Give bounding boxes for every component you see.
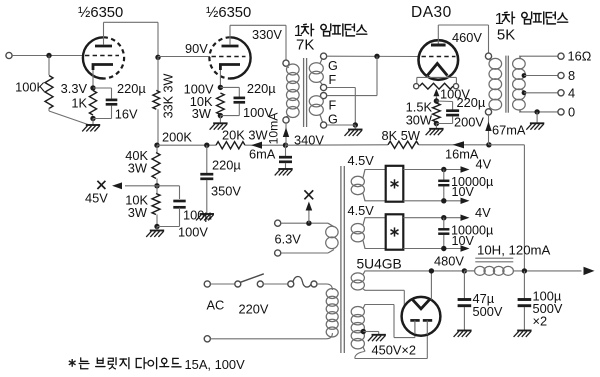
T1 secondary winding 1 [309,63,323,74]
T3 6.3V terminal top [275,220,281,226]
arrow X (up) [306,202,313,211]
node 340V [283,143,288,148]
resistor R6 40K 3W [152,153,160,179]
current arrow 67mA [485,122,491,132]
ground R8 [429,128,443,130]
tube V3 grid [422,56,456,58]
svg-text:220µ: 220µ [247,81,276,96]
svg-text:16Ω: 16Ω [568,49,592,64]
T3 6.3V winding [326,226,338,238]
tube V3 plate [431,44,446,47]
note korean: bridge diode 15A 100V [79,358,89,369]
svg-text:½6350: ½6350 [206,5,251,21]
svg-text:33K 3W: 33K 3W [162,73,176,118]
wire V3 plate to T2 [438,24,488,26]
tube V4 filament [412,299,430,309]
T1 primary winding [287,64,300,75]
wire to ground V1 cathode [92,119,94,125]
wire 340V to 8K [286,144,389,146]
node BR2 + [441,215,446,220]
capacitor C4 100u 100V [173,200,185,203]
T3 4.5V winding 2 [351,224,364,234]
resistor R7 10K 3W [152,194,160,215]
wire C10 bottom [523,307,525,330]
wire HV top to left plate [365,304,395,306]
wire 90V to V2 grid [157,56,159,59]
fuse left terminal [288,281,294,287]
node HV center tap [361,329,366,334]
wire R7 to ground [156,227,158,231]
note asterisk [71,359,73,367]
ground 0 tap [530,122,544,124]
svg-text:4.5V: 4.5V [348,203,375,218]
T2 primary winding [489,58,502,69]
T3 HV winding 450Vx2 [351,307,364,317]
bridge rectifier BR2 [386,214,404,249]
wire 16ohm tap [519,56,521,59]
tube V1 cathode [93,65,113,71]
capacitor C3 220u 350V [200,173,213,176]
wire C4 top [157,185,180,187]
wire 6.3V top [281,222,328,224]
node V2 cathode [218,85,223,90]
capacitor C9 47u 500V [458,298,472,301]
svg-text:3W: 3W [128,161,148,176]
T1 primary top lead [286,66,289,67]
svg-text:67mA: 67mA [492,123,526,138]
wire 0 tap [519,110,521,112]
svg-text:200K: 200K [162,129,192,144]
resistor R9 8K 5W [388,141,419,148]
resistor R1 100K [45,76,53,109]
wire fuse to primary [317,283,327,285]
T1 sec2 leads [320,96,322,98]
wire BR1 + output [403,169,461,171]
T1 sec2 bottom terminal [321,122,327,128]
label X mark right [304,190,313,199]
resistor R5 20K 3W [216,142,245,149]
svg-text:5K: 5K [497,26,515,43]
ground HV center tap [372,334,386,336]
wire G1 to DA30 grid [327,55,419,57]
svg-text:480V: 480V [434,254,464,269]
svg-text:16mA: 16mA [445,147,479,162]
node 4 tap [522,90,527,95]
tube V4 5U4GB envelope [402,297,441,336]
tube V4 plate right [423,319,432,322]
wire 8 tap [524,75,558,77]
wire to choke-out riser [489,144,525,146]
svg-text:100µ: 100µ [183,208,212,223]
wire primary bottom [326,333,332,339]
choke core lines [475,257,513,259]
tube V1 grid [85,55,119,57]
tube V4 plate left [410,319,419,322]
hum pot left terminal [414,84,419,89]
node V2 cathode bottom [218,113,223,118]
svg-text:90V: 90V [185,41,208,56]
svg-text:10H, 120mA: 10H, 120mA [477,242,551,257]
wire C5 top [436,100,452,103]
tube V3 DA30 envelope [419,40,459,80]
terminal 16 ohm [558,53,564,59]
wire BR2 + output [403,217,461,219]
node BR2 - [441,246,446,251]
wire 100K top [48,56,50,76]
svg-text:1K: 1K [71,96,87,111]
wire BR1 - output [403,200,461,202]
current arrow 10mA [283,128,289,138]
svg-text:100K: 100K [15,80,45,95]
svg-text:100V: 100V [178,225,208,240]
T1 primary top terminal [283,60,289,66]
wire 4.5V-1 to bridge [365,169,386,171]
wire 350V cap top [206,145,208,173]
node 8 tap [522,73,527,78]
wire cathode cap top [93,87,112,89]
ground C10 [517,330,531,332]
svg-text:220V: 220V [239,301,269,316]
capacitor C5 220u 200V [446,109,459,112]
label BR1 asterisk [394,179,396,188]
svg-text:7K: 7K [296,37,314,54]
T1 secondary winding 2 [309,96,323,107]
T3 core [340,166,342,353]
wire 45V tap left [125,185,157,187]
T1 sec1 bottom terminal [321,84,327,90]
tube V2 cathode [220,65,240,71]
wire C6 bottom [285,163,287,169]
node grid wire [374,54,379,59]
wire V1 plate to 33K node [104,21,159,23]
wire 33K to 200K node [157,109,159,145]
svg-text:3W: 3W [128,205,148,220]
ground C6 [278,168,292,170]
wire F2 to grid node [327,95,377,97]
node 45V tap [154,183,159,188]
ground V1 cathode [86,124,100,126]
wire plate node down [157,58,159,91]
ground T1 secondary [348,129,362,131]
wire input to V1 grid [12,55,83,57]
capacitor C6 decoupling [279,156,292,159]
switch blade [240,274,263,283]
tube V2 grid [212,56,246,58]
resistor R8 1.5K 30W [433,103,441,122]
wire 200K node to 20K [157,144,216,146]
wire V2 plate to T1 primary [230,24,286,26]
svg-text:220µ: 220µ [212,158,241,173]
arrow BR1 + output [461,166,470,172]
svg-text:F: F [329,73,337,87]
wire C9 bottom [463,307,465,330]
wire C9 top [463,271,465,299]
current arrow 6mA [251,142,262,149]
label X mark left [97,181,105,189]
node input/100K junction [46,53,51,58]
wire sec ground stem [354,125,356,129]
svg-text:3W: 3W [192,106,212,121]
node 100u junction [522,268,527,273]
T1 sec1 top terminal [321,53,327,59]
wire C8 leads [443,218,445,230]
svg-text:8K 5W: 8K 5W [382,128,421,143]
tube V2 plate [222,45,239,48]
T3 5V winding [351,273,364,283]
T1 primary bottom terminal [283,117,289,123]
svg-text:16V: 16V [115,106,138,121]
switch throw [257,281,263,287]
svg-text:DA30: DA30 [411,4,452,21]
node OPT feed [486,142,491,147]
svg-text:4.5V: 4.5V [348,153,375,168]
T2 core [505,56,507,113]
node V1 cathode [90,85,95,90]
tube V1 1/2 6350 envelope [83,37,104,78]
T2 primary leads [489,59,492,60]
ground V2 cathode [213,122,227,124]
svg-text:30W: 30W [406,113,433,128]
arrow B+ output [584,267,595,275]
node T1 sec ground [353,122,358,127]
node 220u/350V junction [204,143,209,148]
tube V3 filament [427,64,447,76]
AC terminal top [204,281,210,287]
terminal 4 [558,90,564,96]
svg-text:220µ: 220µ [457,95,486,110]
svg-text:AC: AC [207,297,225,312]
T3 primary 220V winding [326,289,338,299]
node filament/480V rail [429,268,434,273]
wire 5V top to 480V rail [365,270,475,272]
svg-text:15A, 100V: 15A, 100V [185,357,246,372]
arrow BR2 + output [461,215,470,221]
node V1 cathode bottom [90,116,95,121]
resistor R3 1K [89,91,96,116]
svg-text:8: 8 [568,68,575,83]
label BR2 asterisk [394,227,396,236]
wire 10mA riser [285,123,287,145]
node V1 plate / 90V [155,55,160,60]
current arrow 16mA [453,141,465,148]
wire 350V cap bottom [206,180,208,214]
wire BR2 - output [403,248,461,250]
svg-text:4: 4 [568,85,575,100]
svg-text:460V: 460V [452,30,482,45]
svg-text:G: G [328,59,338,73]
wire 4.5V-2 to bridge [365,217,386,219]
node 0 tap ground [534,109,539,114]
wire HV bottom to right plate [355,352,365,359]
input terminal [6,52,12,58]
wire cathode cap bottom [111,106,113,119]
T1 core [303,58,305,127]
T3 6.3V terminal bottom [275,250,281,256]
svg-text:350V: 350V [211,184,241,199]
wire G2 to ground node [327,124,356,126]
arrow BR2 - output [461,245,470,251]
inductor L1 10H choke [475,266,486,275]
T2 secondary winding [513,58,526,69]
ground C9 [457,330,471,332]
wire 8K to B+ node [419,144,489,146]
node X arrow junction [306,221,311,226]
svg-text:500V: 500V [473,304,503,319]
capacitor C7 10000u 10V [438,180,449,183]
switch pole [235,281,241,287]
resistor R2 33K 3W [153,90,160,109]
ground C3 [200,213,214,215]
wire C5 bottom [452,116,454,123]
T2 primary bottom terminal [485,109,491,115]
capacitor C10 100u 500Vx2 [518,298,532,301]
wire C7 leads [443,170,445,181]
T2 primary top terminal [485,53,491,59]
wire switch to fuse [263,283,287,285]
node BR1 - [441,198,446,203]
wire C4 bottom [179,208,181,227]
wire center tap to ground [363,331,378,333]
wire 67mA riser [488,115,490,145]
wire 6.3V bottom [281,252,328,254]
ground R7 [150,230,164,232]
node 200K [154,143,159,148]
svg-text:×2: ×2 [533,314,548,329]
svg-text:½6350: ½6350 [78,5,123,21]
svg-text:4V: 4V [475,205,491,220]
capacitor C8 10000u 10V [438,228,449,231]
svg-text:200V: 200V [454,115,484,130]
wire C10 top [523,271,525,299]
wire C6 top [285,145,287,156]
svg-text:220µ: 220µ [117,81,146,96]
wire R8 ground stem [435,124,437,129]
arrow BR1 - output [461,198,470,204]
capacitor C1 220u 16V [106,99,118,102]
wire F1 down [327,87,356,89]
T1 sec1 leads [320,59,322,64]
wire 4 tap [524,92,558,94]
node 47u junction [462,268,467,273]
svg-text:45V: 45V [85,191,108,206]
svg-text:450V×2: 450V×2 [372,343,416,358]
wire V2 cap bottom [238,104,240,116]
wire V2 cap top [220,86,239,88]
wire 20K to 340V node [245,144,286,146]
hum pot right terminal [453,84,458,89]
wire 0 ground stem [536,112,538,123]
svg-text:20K 3W: 20K 3W [222,128,268,143]
terminal 0 [558,109,564,115]
T1 sec2 top terminal [321,93,327,99]
wire rail choke right [513,270,582,272]
svg-text:F: F [329,99,337,113]
wire V2 cathode ground [219,116,221,123]
node wiper [434,98,439,103]
fuse element [293,276,312,287]
resistor R4 10K 3W [217,93,225,115]
T3 4.5V winding 1 [351,176,364,186]
AC terminal bottom [204,336,210,342]
node BR1 + [441,167,446,172]
svg-text:6.3V: 6.3V [275,232,302,247]
svg-text:5U4GB: 5U4GB [357,257,402,272]
node R8 bottom [434,121,439,126]
capacitor C2 220u 100V [234,97,246,100]
terminal 8 [558,72,564,78]
wire V4 filament right to rail [430,271,432,300]
wire 5V bottom to filament [365,289,405,291]
svg-text:10V: 10V [452,185,475,199]
svg-text:10V: 10V [452,234,475,248]
tube V1 plate [95,45,112,48]
svg-text:4V: 4V [476,157,492,172]
wire X arrow stem [308,207,310,223]
svg-text:330V: 330V [252,27,282,42]
T1 primary bottom lead [286,116,289,117]
filament leads to hum pot [426,76,428,78]
bridge rectifier BR1 [386,166,404,202]
svg-text:6mA: 6mA [249,147,276,162]
tube V2 1/2 6350 envelope [230,37,251,78]
node R7 bottom [154,224,159,229]
svg-text:3.3V: 3.3V [61,81,88,96]
wire 100K bottom diagonal to ground [48,108,50,111]
arrow 45V (to X) [112,182,122,189]
svg-text:10mA: 10mA [266,112,280,145]
potentiometer hum balance [420,83,454,89]
svg-text:G: G [328,113,338,127]
svg-text:0: 0 [568,104,575,119]
pot wiper arrow [433,89,439,97]
wire AC to switch [210,283,234,285]
wire rail choke left [464,270,475,272]
fuse right terminal [311,281,317,287]
